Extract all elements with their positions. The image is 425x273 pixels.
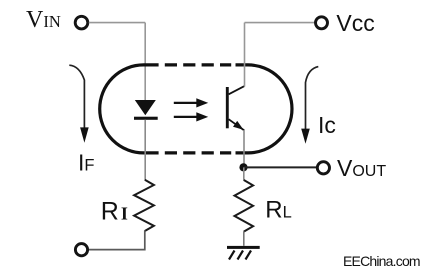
optocoupler body right cap xyxy=(236,65,292,153)
wire VIN to anode branch xyxy=(89,22,145,24)
svg-text:EEChina.com: EEChina.com xyxy=(343,253,420,269)
wire collector to VCC xyxy=(244,23,246,87)
wire LED cathode to RI xyxy=(144,120,146,180)
phototransistor Q1 emitter lead with arrow xyxy=(229,119,245,130)
wire VCC horizontal xyxy=(245,22,315,24)
node VOUT junction xyxy=(239,163,247,171)
wire RL to ground xyxy=(243,231,245,245)
terminal VIN xyxy=(75,16,88,29)
wire RI bottom to input return xyxy=(89,231,145,250)
light emission arrow lower xyxy=(174,112,208,121)
svg-text:VIN: VIN xyxy=(26,7,61,33)
resistor RL xyxy=(235,180,254,232)
terminal input return xyxy=(75,244,87,256)
wire node to VOUT terminal xyxy=(244,166,317,168)
resistor RI xyxy=(134,180,154,231)
LED D1 anode triangle xyxy=(135,100,156,115)
svg-text:IF: IF xyxy=(78,150,94,176)
svg-text:Ic: Ic xyxy=(318,112,336,138)
svg-text:RL: RL xyxy=(265,197,292,224)
phototransistor Q1 collector lead xyxy=(229,86,245,94)
svg-text:RI: RI xyxy=(101,197,128,225)
terminal VOUT xyxy=(317,162,329,174)
light emission arrow upper xyxy=(174,98,208,107)
wire LED anode xyxy=(144,23,146,101)
wire emitter to output node xyxy=(243,130,245,164)
terminal VCC xyxy=(316,17,328,29)
phototransistor Q1 base bar xyxy=(226,87,229,128)
optocoupler body left cap xyxy=(100,65,159,153)
LED D1 cathode bar xyxy=(134,117,158,120)
svg-text:VOUT: VOUT xyxy=(337,155,386,181)
current arrow IC xyxy=(301,67,318,144)
svg-text:Vcc: Vcc xyxy=(336,10,374,36)
current arrow IF xyxy=(69,65,88,143)
ground xyxy=(227,246,260,260)
wire node to RL xyxy=(243,167,245,180)
optocoupler body top dashed edge xyxy=(165,63,231,66)
optocoupler body bottom dashed edge xyxy=(165,151,231,154)
